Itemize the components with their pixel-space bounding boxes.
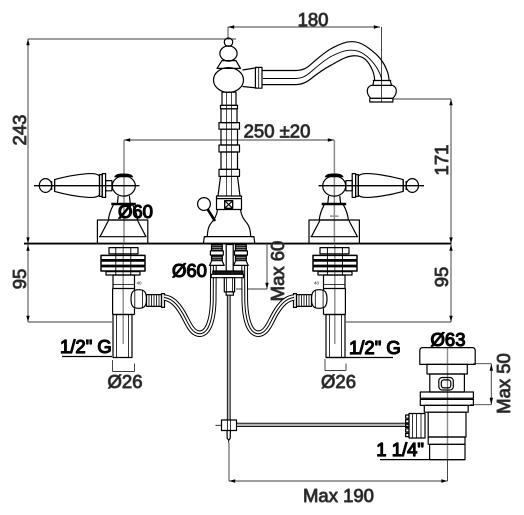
node spout outlet axis xyxy=(381,27,383,102)
dim 95 left xyxy=(9,244,112,322)
left valve below deck xyxy=(101,245,145,358)
svg-text:243: 243 xyxy=(9,115,30,146)
svg-text:95: 95 xyxy=(431,267,452,288)
dim 171 xyxy=(393,99,453,244)
svg-text:Max 190: Max 190 xyxy=(303,485,374,506)
spout column: finial ball xyxy=(220,46,237,61)
spout tube xyxy=(262,42,389,85)
right handle dome xyxy=(322,203,347,206)
left flex hose xyxy=(164,266,213,334)
svg-text:Ø63: Ø63 xyxy=(431,329,466,350)
svg-text:171: 171 xyxy=(431,145,452,176)
svg-text:40: 40 xyxy=(137,281,143,286)
deck / counter line xyxy=(24,243,451,245)
dim Max 60 xyxy=(236,241,288,302)
pop-up rod guide xyxy=(224,278,234,295)
column valve block xyxy=(217,196,242,210)
right handle base plate xyxy=(309,220,359,244)
left handle base plate xyxy=(97,220,147,244)
right flex hose xyxy=(245,266,294,334)
pop-up rod tube xyxy=(226,245,233,279)
left handle neck xyxy=(117,196,130,203)
label 1 1/4" xyxy=(376,439,465,460)
column base bell xyxy=(203,210,254,244)
svg-text:Ø26: Ø26 xyxy=(321,371,356,392)
spout joint connector xyxy=(243,68,257,88)
right handle centreline xyxy=(319,185,425,187)
dim 250 +-20 xyxy=(124,121,334,244)
mounting bracket xyxy=(211,271,243,278)
right handle neck xyxy=(328,196,341,203)
svg-text:Ø60: Ø60 xyxy=(172,260,207,281)
svg-text:Max 60: Max 60 xyxy=(267,241,288,302)
right handle lever ball xyxy=(406,179,418,193)
right handle ball joint xyxy=(323,176,346,196)
svg-text:1/2" G: 1/2" G xyxy=(60,336,112,357)
svg-text:1 1/4": 1 1/4" xyxy=(376,439,424,460)
dim O26 right xyxy=(321,359,356,392)
right handle lever xyxy=(346,174,406,198)
left handle centreline xyxy=(34,185,140,187)
drain rod coupling nut xyxy=(406,414,425,439)
svg-text:95: 95 xyxy=(9,269,30,290)
svg-text:1/2" G: 1/2" G xyxy=(349,337,401,358)
dim O26 left xyxy=(108,360,143,392)
left handle cap xyxy=(114,174,133,178)
left handle lever ball xyxy=(39,179,51,193)
right handle cap xyxy=(325,174,344,178)
svg-text:40: 40 xyxy=(314,281,320,286)
pop-up knob lever xyxy=(198,198,215,221)
label 1/2 G right xyxy=(326,337,401,358)
spout outlet bell xyxy=(367,81,396,103)
horizontal rod xyxy=(237,423,410,426)
left handle dome xyxy=(111,203,136,206)
rod clamp xyxy=(216,420,237,431)
right valve below deck xyxy=(313,245,357,358)
pop-up vertical rod xyxy=(227,295,230,420)
spout column: collar xyxy=(217,61,241,69)
dim 243 xyxy=(9,39,236,244)
left handle ball joint xyxy=(112,176,135,196)
spout column: finial small ball xyxy=(224,38,232,46)
dim Max 50 xyxy=(470,353,514,414)
dim 180 xyxy=(228,9,380,38)
centre inlet stud right xyxy=(234,245,249,266)
centre inlet stud left xyxy=(210,245,225,266)
column centre axis xyxy=(447,348,449,459)
svg-text:Ø26: Ø26 xyxy=(108,371,143,392)
dim 95 right xyxy=(346,244,453,322)
svg-text:250 ±20: 250 ±20 xyxy=(244,121,311,142)
label 1/2 G left xyxy=(60,336,112,357)
right valve side fitting xyxy=(294,290,328,309)
column shaft xyxy=(218,92,240,196)
rod stub xyxy=(227,431,230,441)
svg-text:Max 50: Max 50 xyxy=(493,353,514,414)
left valve side fitting xyxy=(131,290,165,309)
left handle lever xyxy=(52,174,112,198)
drain assembly xyxy=(420,348,475,460)
spout column: main ball xyxy=(214,68,244,93)
svg-text:180: 180 xyxy=(298,9,329,30)
dim Max 190 xyxy=(229,443,448,506)
